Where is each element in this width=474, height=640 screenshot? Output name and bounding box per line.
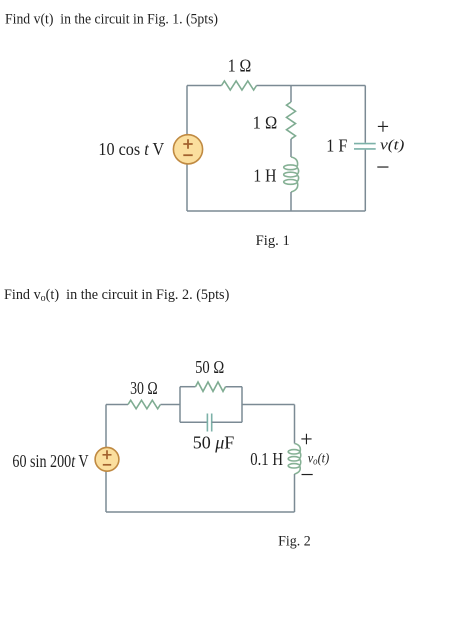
caption Fig. 1 — [256, 233, 290, 249]
wire: parallel box left edge — [179, 387, 181, 423]
wire: segment from 30Ω to parallel box — [161, 404, 181, 406]
label 30Ω — [130, 378, 158, 398]
svg-text:1 Ω: 1 Ω — [253, 113, 278, 133]
wire: box top edge left of 50Ω — [180, 386, 196, 388]
svg-text:1 Ω: 1 Ω — [228, 56, 252, 76]
wire: circuit 2 right branch bottom segment — [294, 474, 296, 512]
label vo(t) output voltage — [308, 452, 330, 468]
svg-text:+: + — [377, 114, 389, 139]
wire: circuit 2 top-left segment — [106, 404, 128, 406]
wire: circuit 1 left branch (source branch) — [186, 86, 188, 212]
svg-text:50 Ω: 50 Ω — [195, 357, 224, 377]
label v(t) output voltage — [380, 137, 405, 153]
wire: circuit 1 top-left segment — [187, 85, 222, 87]
wire: circuit 1 top-right segment — [257, 85, 366, 87]
wire: box bottom edge right of capacitor — [212, 421, 242, 423]
svg-text:+: + — [300, 427, 312, 452]
node/polarity + for vo(t) — [300, 427, 312, 452]
problem 2 heading text — [4, 287, 230, 304]
svg-text:0.1 H: 0.1 H — [250, 449, 283, 469]
resistor 1Ω (top horizontal) — [222, 81, 257, 90]
problem 1 heading text — [5, 11, 218, 27]
voltage source VS2 60 sin 200t V — [95, 447, 119, 471]
inductor L1 1H coil — [284, 157, 299, 192]
node/polarity - for vo(t) — [300, 463, 314, 489]
caption Fig. 2 — [278, 533, 311, 549]
voltage source VS1 10 cos t V — [173, 135, 202, 164]
svg-text:−: − — [300, 463, 314, 489]
svg-text:1 H: 1 H — [253, 166, 276, 186]
wire: circuit 2 bottom segment — [106, 511, 295, 513]
label 10 cos t V for source — [98, 139, 164, 159]
wire: circuit 2 left branch — [105, 405, 107, 513]
wire: circuit 1 right branch top segment — [364, 86, 366, 143]
resistor 1Ω (middle vertical) — [287, 102, 296, 139]
wire: segment from box to right branch — [242, 404, 295, 406]
svg-text:60 sin 200t V: 60 sin 200t V — [12, 451, 88, 471]
svg-text:10 cos t V: 10 cos t V — [98, 139, 164, 159]
label 50 µF — [193, 432, 235, 452]
inductor L2 0.1H coil — [288, 444, 301, 475]
label 1H for inductor — [253, 166, 276, 186]
svg-text:Find v(t) in the circuit in F: Find v(t) in the circuit in Fig. 1. (5pt… — [5, 11, 218, 27]
svg-text:−: − — [376, 155, 390, 181]
resistor R2 30Ω — [128, 400, 160, 409]
svg-text:Fig. 1: Fig. 1 — [256, 233, 290, 249]
node/polarity + for v(t) — [377, 114, 389, 139]
label 1F for capacitor — [326, 136, 347, 156]
svg-text:50 μF: 50 μF — [193, 432, 235, 452]
svg-text:Find vo(t) in the circuit in: Find vo(t) in the circuit in Fig. 2. (5p… — [4, 287, 230, 304]
capacitor C1 1F plates — [354, 144, 376, 149]
label 60 sin 200t V for source — [12, 451, 88, 471]
wire: circuit 1 middle branch top segment — [290, 86, 292, 103]
svg-text:1 F: 1 F — [326, 136, 347, 156]
label 50Ω — [195, 357, 224, 377]
wire: box top edge right of 50Ω — [226, 386, 243, 388]
svg-text:Fig. 2: Fig. 2 — [278, 533, 311, 549]
wire: circuit 1 middle branch bottom segment — [290, 192, 292, 211]
label 0.1 H — [250, 449, 283, 469]
resistor R3 50Ω — [196, 382, 226, 391]
wire: circuit 1 middle branch mid segment — [290, 139, 292, 157]
wire: circuit 1 right branch bottom segment — [364, 150, 366, 211]
capacitor C2 50µF plates — [207, 414, 211, 432]
label 1Ω for top resistor — [228, 56, 252, 76]
wire: circuit 2 right branch top segment — [294, 405, 296, 444]
svg-text:30 Ω: 30 Ω — [130, 378, 158, 398]
svg-text:v(t): v(t) — [380, 137, 405, 153]
wire: circuit 1 bottom segment — [187, 210, 365, 212]
wire: box bottom edge left of capacitor — [180, 421, 207, 423]
wire: parallel box right edge — [241, 387, 243, 423]
node/polarity - for v(t) — [376, 155, 390, 181]
label 1Ω for middle resistor — [253, 113, 278, 133]
